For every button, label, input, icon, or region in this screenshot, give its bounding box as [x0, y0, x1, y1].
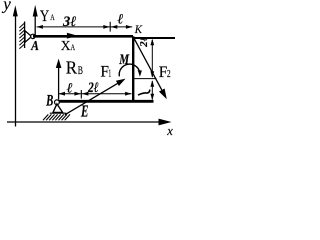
dimension 2l (right, vertical): [151, 40, 153, 77]
right vertical member K-corner: [132, 36, 134, 101]
top-right extension line from K: [133, 37, 175, 39]
l right label (rotated): [139, 90, 150, 95]
svg-text:K: K: [134, 22, 143, 36]
moment arrowhead: [138, 70, 142, 77]
svg-text:A: A: [50, 12, 55, 22]
tick between l and 2l (bottom): [80, 90, 82, 99]
svg-text:y: y: [1, 0, 11, 14]
y-axis: [15, 13, 17, 127]
svg-text:X: X: [61, 38, 71, 53]
pin support A triangle: [25, 31, 32, 42]
extension line mid right: [134, 78, 157, 80]
dimension 2l (bottom): [82, 93, 132, 95]
wall hatching at A: [19, 23, 24, 49]
F1 force arrow: [65, 83, 118, 115]
moment arc: [119, 64, 140, 76]
svg-text:B: B: [45, 93, 53, 110]
bottom beam B-corner: [56, 100, 154, 103]
support B base line: [50, 112, 67, 114]
pin support B triangle: [53, 104, 63, 113]
svg-text:2ℓ: 2ℓ: [87, 80, 98, 96]
dimension l (right, vertical): [151, 81, 153, 100]
x-axis: [7, 121, 160, 123]
ground hatching at B: [43, 114, 70, 120]
pin B circle: [55, 100, 60, 105]
pin A circle: [31, 34, 35, 38]
wall line at A: [24, 22, 26, 49]
Y_A force arrow: [34, 15, 36, 36]
svg-text:2ℓ: 2ℓ: [138, 36, 150, 48]
top beam A-K: [33, 35, 133, 38]
svg-text:ℓ: ℓ: [67, 82, 73, 97]
svg-text:A: A: [71, 42, 76, 52]
tick between 3l and l: [109, 22, 111, 32]
svg-text:A: A: [30, 39, 39, 54]
dimension line 3l (top): [37, 26, 110, 28]
svg-text:x: x: [166, 124, 173, 136]
svg-text:Y: Y: [40, 8, 50, 25]
svg-text:ℓ: ℓ: [118, 13, 124, 28]
X_A force arrow: [34, 36, 68, 38]
svg-text:2: 2: [167, 68, 171, 80]
dimension l (bottom): [59, 93, 81, 95]
dimension line l (top): [111, 26, 133, 28]
svg-text:R: R: [66, 58, 77, 78]
svg-text:E: E: [80, 102, 88, 121]
F2 force arrow: [134, 39, 162, 92]
svg-text:1: 1: [108, 69, 111, 80]
x-axis arrowhead: [159, 119, 172, 126]
svg-text:B: B: [78, 65, 83, 77]
y-axis arrowhead: [13, 5, 18, 16]
svg-text:3ℓ: 3ℓ: [62, 14, 76, 30]
R_B force arrow: [58, 67, 60, 100]
